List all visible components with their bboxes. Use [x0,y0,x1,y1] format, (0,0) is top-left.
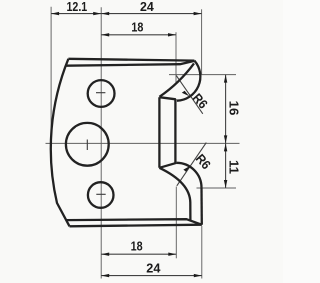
svg-text:18: 18 [131,239,143,254]
arrows 18 bottom [101,253,109,256]
back arc top [159,63,194,96]
R6 arc top front [177,61,200,101]
centerline vertical through holes [100,7,102,278]
extension line right bottom (24) [201,226,203,279]
arrows 18 top [101,33,109,36]
arrows 24 bottom [101,274,109,277]
thin construction/dimension lines [46,7,240,279]
vertical dimension line 16/11 [225,75,227,188]
svg-text:12.1: 12.1 [67,0,88,14]
front flat vertical [174,99,176,163]
right edge [200,188,203,225]
bottom edge upper line with corner bevel [66,219,202,225]
extension line y=188 (11 bottom) [197,187,237,189]
svg-text:18: 18 [131,20,143,35]
arrows 24 top [101,12,109,15]
dimension line bottom 18 [101,253,176,255]
svg-text:11: 11 [226,160,241,174]
large hole tick [86,140,88,151]
svg-text:24: 24 [146,261,161,276]
top edge lower line [66,61,195,66]
arrowheads [51,12,227,277]
upper small hole [88,80,115,107]
top notch connector [159,97,175,99]
extension line left (12.1) [50,7,52,144]
lower hole tick [96,193,105,195]
leader R6 top [176,76,203,114]
left circumference arc + bottom bevel [51,59,70,227]
dimension line top 18 [101,34,176,36]
leader R6 bottom [177,143,207,186]
hole center marks [87,93,105,195]
back arc bottom [159,168,190,221]
extension line right top (24) [201,9,203,74]
mid horizontal centerline [46,142,240,144]
extension line y=74.6 (16 top) [169,74,236,76]
bottom edge lower line [70,225,202,227]
svg-text:16: 16 [226,101,241,116]
top edge upper line [68,59,194,61]
dimension line top 12.1 / 24 [51,13,202,15]
arrows 11 [224,143,227,151]
arrows 12.1 [51,12,59,15]
upper hole tick [96,92,105,94]
dimension line bottom 24 [101,275,202,277]
arrows 16 [224,75,227,83]
extension line x=176 top [175,32,177,84]
extension line x=176 bottom [175,187,177,259]
dimension texts [67,0,242,276]
lower small hole [88,182,114,208]
svg-text:24: 24 [140,0,155,14]
part outline thick [51,59,202,227]
large center hole [66,123,109,166]
bottom notch connector [159,163,176,168]
arrow leader top [182,91,190,97]
arrow leader bottom [183,166,190,172]
back flat vertical [158,97,160,168]
R6 arc bottom front [177,163,202,188]
